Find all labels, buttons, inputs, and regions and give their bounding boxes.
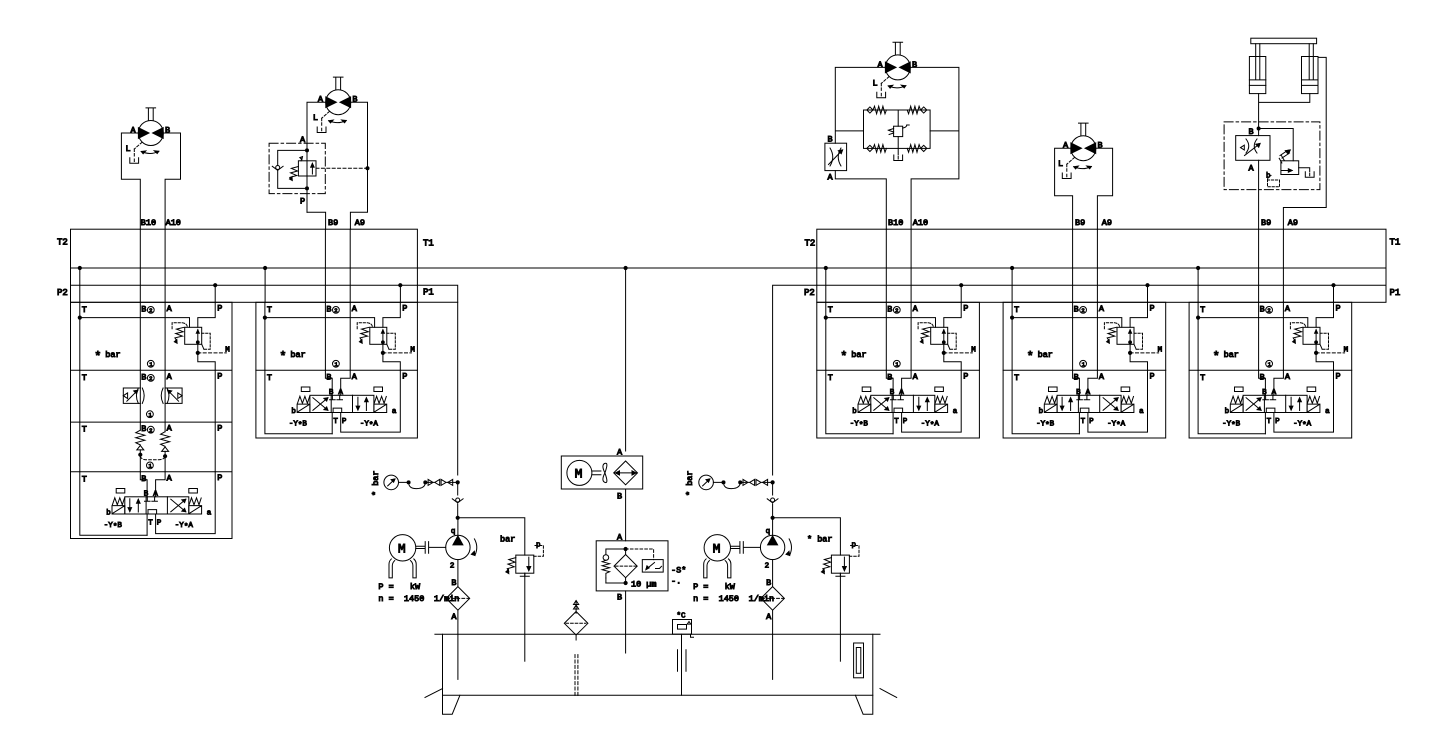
- svg-text:A9: A9: [355, 218, 365, 228]
- motor M10 left: [126, 108, 171, 163]
- counterbalance tier left stack: [82, 422, 223, 472]
- svg-text:L: L: [873, 78, 878, 88]
- wire B/A port lines crossing rail blocks: [140, 229, 1283, 302]
- counterbalance valve block left: [269, 135, 369, 229]
- svg-text:A: A: [878, 60, 884, 70]
- relief valve pump 1: [458, 518, 544, 661]
- svg-text:B: B: [141, 424, 146, 434]
- left manifold rail block: [71, 229, 458, 302]
- breather filter: [564, 601, 588, 641]
- svg-text:B9: B9: [328, 218, 338, 228]
- svg-text:L: L: [126, 144, 131, 154]
- wire motor M10 to ports B10 A10: [121, 133, 180, 229]
- air cooler unit: [561, 448, 642, 502]
- svg-text:A9: A9: [1102, 218, 1112, 228]
- motor M10 right: [873, 42, 918, 97]
- relief tier left stack: [78, 302, 230, 370]
- svg-text:* bar: * bar: [371, 470, 381, 496]
- svg-text:B: B: [912, 60, 917, 70]
- svg-text:P: P: [217, 423, 222, 433]
- svg-text:2: 2: [149, 427, 152, 434]
- crossover relief bridge right: [864, 106, 931, 160]
- wire counterbalance P to port B9: [306, 194, 308, 213]
- svg-text:L: L: [1058, 159, 1063, 169]
- svg-text:A: A: [318, 95, 324, 105]
- svg-text:-.: -.: [671, 577, 681, 587]
- svg-text:B: B: [1098, 141, 1103, 151]
- gauge group pump 2: [685, 470, 774, 496]
- svg-text:T: T: [82, 425, 87, 435]
- right stack section box: [256, 302, 418, 438]
- gauge group pump 1: [371, 470, 459, 496]
- svg-text:B: B: [141, 372, 146, 382]
- svg-text:A: A: [617, 533, 623, 543]
- svg-text:T1: T1: [1390, 238, 1401, 248]
- svg-text:A9: A9: [1288, 218, 1298, 228]
- directional valve tier S3: [1198, 370, 1341, 434]
- svg-text:B9: B9: [1261, 218, 1271, 228]
- svg-text:p: p: [536, 542, 541, 550]
- flow control tier left stack: [82, 370, 223, 422]
- svg-text:B10: B10: [888, 218, 903, 228]
- svg-text:T1: T1: [423, 239, 434, 249]
- svg-text:A10: A10: [913, 218, 928, 228]
- svg-text:p: p: [852, 542, 857, 550]
- svg-text:-S*: -S*: [671, 566, 686, 576]
- svg-text:A: A: [1063, 141, 1069, 151]
- svg-text:L: L: [313, 113, 318, 123]
- svg-text:* bar: * bar: [807, 535, 833, 545]
- svg-text:P1: P1: [423, 288, 434, 298]
- wire motor M10 right side loops: [835, 67, 959, 229]
- svg-text:A: A: [828, 173, 834, 183]
- svg-text:A: A: [617, 448, 623, 458]
- directional valve tier S1: [826, 370, 969, 434]
- relief tier right stack: [263, 302, 415, 370]
- svg-text:P1: P1: [1390, 288, 1401, 298]
- wire T feed drops into sections: [80, 268, 1198, 302]
- relief valve pump 2: [773, 518, 859, 661]
- svg-text:P: P: [300, 197, 305, 207]
- svg-text:B: B: [352, 95, 357, 105]
- return filter unit: [596, 533, 686, 603]
- svg-text:A: A: [300, 135, 306, 145]
- wire cooler to filter: [625, 489, 627, 541]
- svg-text:B9: B9: [1075, 218, 1085, 228]
- section S2 right manifold box: [1003, 302, 1166, 438]
- svg-text:P: P: [217, 372, 222, 382]
- section S3 right manifold box: [1189, 302, 1352, 438]
- temperature sensor: [673, 613, 694, 638]
- wire motor M9 A to counterbalance block: [307, 102, 326, 143]
- wire T and P pass-through left stack: [80, 370, 215, 472]
- wire filter to tank: [625, 591, 627, 653]
- cylinder pair top right: [1249, 38, 1318, 93]
- directional valve tier left stack: [80, 472, 223, 536]
- wire cylinders to valve block: [1259, 57, 1327, 229]
- svg-text:B: B: [828, 135, 833, 145]
- svg-text:A10: A10: [166, 218, 181, 228]
- relief tier S2: [1011, 302, 1163, 370]
- motor M9 mid right: [1058, 123, 1103, 178]
- svg-text:B: B: [617, 492, 622, 502]
- svg-text:M: M: [575, 466, 583, 481]
- junction dots on T line: [78, 266, 1200, 269]
- svg-text:P2: P2: [804, 288, 815, 298]
- pump unit 2: [693, 518, 791, 634]
- left stack section box: [71, 302, 233, 538]
- flow control valve right B/A: [825, 135, 847, 183]
- svg-text:P2: P2: [57, 288, 68, 298]
- svg-text:B: B: [1249, 127, 1254, 137]
- svg-text:2: 2: [149, 375, 152, 382]
- wire center T drop to cooler: [625, 268, 627, 451]
- check valve pump 1 riser: [452, 482, 463, 519]
- section S1 right manifold box: [817, 302, 980, 438]
- svg-text:10 µm: 10 µm: [631, 580, 657, 590]
- relief tier S1: [824, 302, 976, 370]
- svg-text:T: T: [82, 373, 87, 383]
- wire T return long line: [71, 267, 1387, 269]
- pump unit 1: [378, 518, 476, 634]
- check valve pump 2 riser: [767, 482, 778, 519]
- wire flow valve A to port B10: [835, 171, 886, 230]
- svg-text:T2: T2: [805, 239, 816, 249]
- svg-text:A: A: [167, 372, 173, 382]
- svg-text:B10: B10: [141, 218, 156, 228]
- tank internal pipes: [458, 634, 864, 696]
- directional valve tier right stack: [265, 370, 408, 434]
- svg-text:B: B: [617, 593, 622, 603]
- tank: [425, 634, 897, 714]
- svg-text:T2: T2: [57, 238, 68, 248]
- wire P1 supply stub to pump 1: [399, 284, 458, 475]
- wire P feed drops into sections: [215, 285, 1333, 302]
- svg-text:* bar: * bar: [685, 470, 695, 496]
- svg-text:A: A: [167, 424, 173, 434]
- svg-text:B: B: [165, 126, 170, 136]
- wire P2 supply stub to pump 2: [773, 284, 1336, 475]
- relief tier S3: [1197, 302, 1349, 370]
- wire motor M9 mid to ports B9 A9: [1055, 148, 1113, 229]
- right manifold rail block: [817, 229, 1386, 302]
- svg-text:A: A: [131, 126, 137, 136]
- junction dots on P line: [214, 284, 1150, 287]
- svg-text:bar: bar: [500, 535, 515, 545]
- motor M9 left: [313, 77, 358, 132]
- svg-text:A: A: [1249, 164, 1255, 174]
- cylinder valve block dashed: [1224, 122, 1320, 229]
- directional valve tier S2: [1012, 370, 1155, 434]
- wire motor M9 B down: [350, 102, 367, 229]
